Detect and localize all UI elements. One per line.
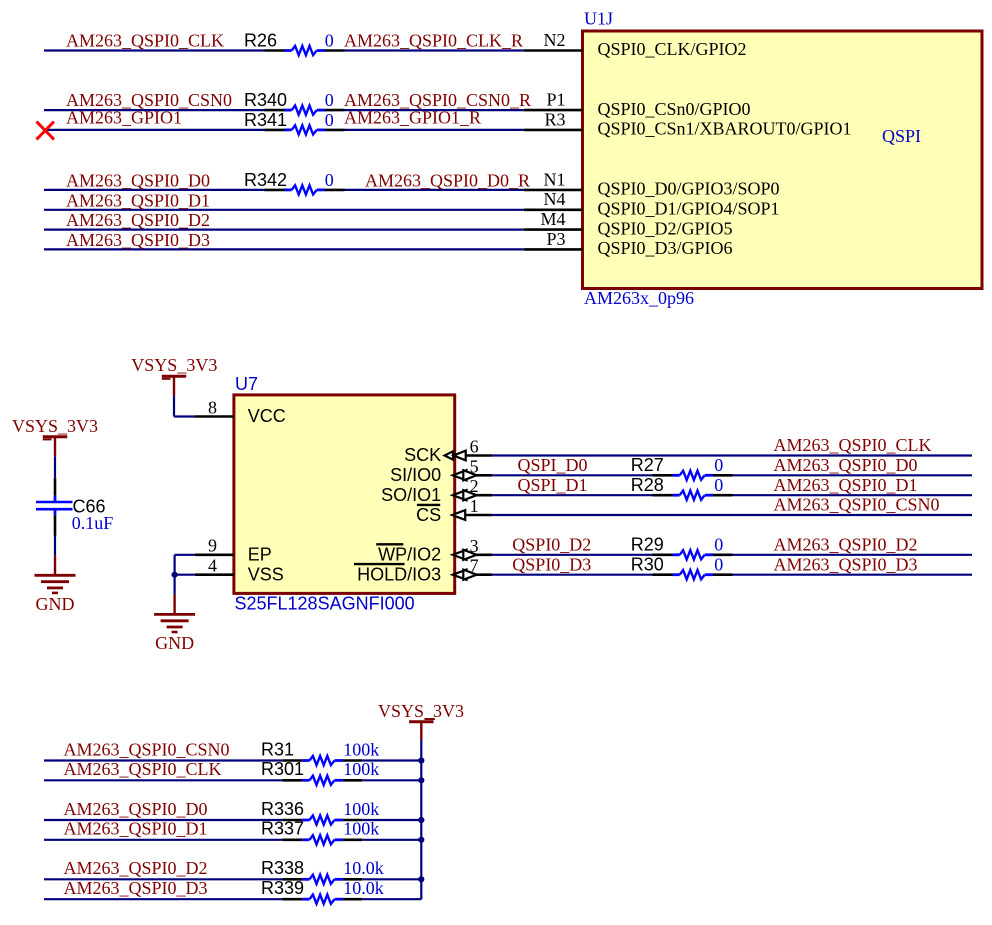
svg-text:QSPI0_D2: QSPI0_D2 <box>512 535 591 555</box>
svg-text:9: 9 <box>208 536 217 556</box>
svg-text:0: 0 <box>714 535 723 555</box>
svg-text:AM263_QSPI0_D2: AM263_QSPI0_D2 <box>66 210 210 230</box>
svg-text:N4: N4 <box>544 189 566 209</box>
svg-text:AM263_QSPI0_CLK: AM263_QSPI0_CLK <box>64 759 222 779</box>
svg-text:SO/IO1: SO/IO1 <box>381 485 441 505</box>
svg-text:6: 6 <box>470 437 479 457</box>
svg-text:QSPI0_D3: QSPI0_D3 <box>512 554 591 574</box>
svg-text:QSPI0_D3/GPIO6: QSPI0_D3/GPIO6 <box>598 238 733 258</box>
svg-text:AM263_QSPI0_D0: AM263_QSPI0_D0 <box>774 455 918 475</box>
svg-text:R338: R338 <box>261 858 304 878</box>
svg-text:QSPI0_D1/GPIO4/SOP1: QSPI0_D1/GPIO4/SOP1 <box>598 199 780 219</box>
svg-text:AM263_QSPI0_CLK_R: AM263_QSPI0_CLK_R <box>344 31 523 51</box>
svg-text:QSPI0_D2/GPIO5: QSPI0_D2/GPIO5 <box>598 218 733 238</box>
svg-text:R339: R339 <box>261 878 304 898</box>
svg-text:AM263_QSPI0_D2: AM263_QSPI0_D2 <box>774 535 918 555</box>
svg-text:AM263_QSPI0_D1: AM263_QSPI0_D1 <box>774 475 918 495</box>
svg-text:AM263_QSPI0_D1: AM263_QSPI0_D1 <box>64 819 208 839</box>
svg-text:10.0k: 10.0k <box>343 878 384 898</box>
svg-text:0: 0 <box>714 554 723 574</box>
svg-text:0: 0 <box>325 110 334 130</box>
svg-text:P1: P1 <box>546 90 565 110</box>
svg-text:8: 8 <box>208 397 217 417</box>
svg-text:AM263x_0p96: AM263x_0p96 <box>584 288 694 308</box>
svg-text:WP/IO2: WP/IO2 <box>378 544 441 564</box>
svg-text:AM263_QSPI0_D3: AM263_QSPI0_D3 <box>64 878 208 898</box>
svg-text:R341: R341 <box>244 110 287 130</box>
svg-text:0: 0 <box>325 90 334 110</box>
svg-text:VCC: VCC <box>248 406 286 426</box>
svg-text:R301: R301 <box>261 759 304 779</box>
svg-text:AM263_GPIO1: AM263_GPIO1 <box>66 108 182 128</box>
svg-text:10.0k: 10.0k <box>343 858 384 878</box>
svg-text:100k: 100k <box>343 739 379 759</box>
svg-text:QSPI0_CLK/GPIO2: QSPI0_CLK/GPIO2 <box>598 39 747 59</box>
svg-text:R29: R29 <box>631 535 664 555</box>
svg-text:SI/IO0: SI/IO0 <box>390 465 441 485</box>
svg-text:0: 0 <box>325 170 334 190</box>
svg-text:0: 0 <box>714 455 723 475</box>
svg-text:AM263_QSPI0_D0: AM263_QSPI0_D0 <box>64 799 208 819</box>
svg-text:R3: R3 <box>544 109 565 129</box>
svg-text:N1: N1 <box>544 169 566 189</box>
svg-text:AM263_QSPI0_CSN0: AM263_QSPI0_CSN0 <box>64 739 230 759</box>
svg-text:U7: U7 <box>235 374 258 394</box>
svg-text:AM263_QSPI0_CSN0: AM263_QSPI0_CSN0 <box>774 495 940 515</box>
svg-text:AM263_QSPI0_CLK: AM263_QSPI0_CLK <box>66 31 224 51</box>
svg-text:QSPI0_CSn0/GPIO0: QSPI0_CSn0/GPIO0 <box>598 99 751 119</box>
svg-text:R31: R31 <box>261 739 294 759</box>
svg-text:R340: R340 <box>244 90 287 110</box>
svg-text:R30: R30 <box>631 554 664 574</box>
svg-text:R28: R28 <box>631 475 664 495</box>
svg-text:AM263_QSPI0_D3: AM263_QSPI0_D3 <box>774 554 918 574</box>
svg-text:AM263_QSPI0_D0_R: AM263_QSPI0_D0_R <box>365 170 530 190</box>
svg-text:AM263_QSPI0_CLK: AM263_QSPI0_CLK <box>774 435 932 455</box>
svg-text:N2: N2 <box>544 30 566 50</box>
svg-text:AM263_GPIO1_R: AM263_GPIO1_R <box>344 108 481 128</box>
svg-text:QSPI_D0: QSPI_D0 <box>518 455 588 475</box>
svg-text:AM263_QSPI0_D0: AM263_QSPI0_D0 <box>66 170 210 190</box>
svg-text:AM263_QSPI0_D1: AM263_QSPI0_D1 <box>66 190 210 210</box>
svg-text:R26: R26 <box>244 31 277 51</box>
svg-text:P3: P3 <box>546 229 565 249</box>
svg-text:GND: GND <box>155 633 194 653</box>
svg-text:VSYS_3V3: VSYS_3V3 <box>131 355 217 375</box>
svg-text:AM263_QSPI0_D2: AM263_QSPI0_D2 <box>64 858 208 878</box>
svg-text:AM263_QSPI0_D3: AM263_QSPI0_D3 <box>66 230 210 250</box>
svg-text:R27: R27 <box>631 455 664 475</box>
svg-text:M4: M4 <box>540 209 565 229</box>
svg-text:QSPI: QSPI <box>882 126 921 146</box>
svg-text:SCK: SCK <box>404 445 441 465</box>
svg-text:R337: R337 <box>261 819 304 839</box>
svg-text:4: 4 <box>208 556 217 576</box>
svg-text:VSYS_3V3: VSYS_3V3 <box>12 416 98 436</box>
svg-text:VSS: VSS <box>248 564 284 584</box>
svg-text:100k: 100k <box>343 819 379 839</box>
svg-text:100k: 100k <box>343 759 379 779</box>
svg-text:R342: R342 <box>244 170 287 190</box>
svg-text:R336: R336 <box>261 799 304 819</box>
svg-text:QSPI_D1: QSPI_D1 <box>518 475 588 495</box>
svg-text:VSYS_3V3: VSYS_3V3 <box>378 701 464 721</box>
svg-text:0: 0 <box>325 31 334 51</box>
svg-text:100k: 100k <box>343 799 379 819</box>
svg-text:QSPI0_D0/GPIO3/SOP0: QSPI0_D0/GPIO3/SOP0 <box>598 179 780 199</box>
svg-text:QSPI0_CSn1/XBAROUT0/GPIO1: QSPI0_CSn1/XBAROUT0/GPIO1 <box>598 119 852 139</box>
svg-text:EP: EP <box>248 544 272 564</box>
svg-text:S25FL128SAGNFI000: S25FL128SAGNFI000 <box>235 594 415 614</box>
svg-text:CS: CS <box>416 505 441 525</box>
svg-text:1: 1 <box>470 496 479 516</box>
svg-text:GND: GND <box>36 594 75 614</box>
svg-text:0: 0 <box>714 475 723 495</box>
svg-text:U1J: U1J <box>584 9 613 29</box>
svg-text:0.1uF: 0.1uF <box>72 513 114 533</box>
svg-text:HOLD/IO3: HOLD/IO3 <box>357 564 441 584</box>
